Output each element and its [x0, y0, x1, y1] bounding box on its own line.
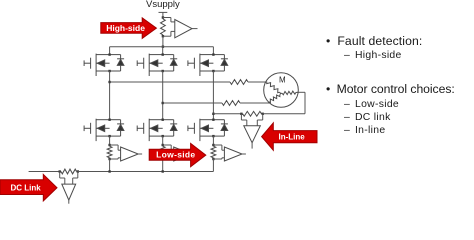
wire U5 output [251, 143, 253, 149]
wire U2 sense taps [110, 145, 121, 159]
bullet Motor control choices [326, 82, 330, 96]
op-amp U5 in-line sense [244, 126, 260, 143]
label arrow High-side [101, 18, 157, 39]
wire U2 output [138, 153, 142, 155]
wire top rail [110, 46, 214, 48]
node supply rail junction [162, 46, 164, 48]
svg-text:Low-side: Low-side [156, 149, 195, 159]
bullet Fault detection [326, 34, 330, 48]
wire U4 source lead [212, 136, 214, 145]
resistor R6 low-side shunt B [160, 144, 165, 160]
wire U6 sense taps [60, 172, 78, 185]
transistor Q6 low-side C [188, 119, 228, 142]
wire phase B [163, 102, 222, 104]
node bus junction A [108, 170, 110, 172]
sub bullet High-side [344, 50, 350, 61]
resistor R8 dc-link shunt [59, 169, 80, 174]
resistor R4 in-line shunt [240, 111, 264, 116]
wire phase C wrap to motor [263, 92, 305, 114]
wire Q2 drain lead [162, 47, 164, 55]
sub bullet DC link [344, 112, 350, 123]
resistor R5 low-side shunt A [107, 144, 112, 160]
svg-text:In-Line: In-Line [278, 133, 305, 142]
op-amp U6 dc-link sense [62, 184, 76, 200]
wire Q3 drain lead [212, 47, 214, 55]
wire R7 low-side shunt C to bus [212, 159, 214, 172]
op-amp U1 high-side sense [175, 20, 192, 38]
wire R6 low-side shunt B to bus [162, 159, 164, 172]
wire leg C vertical [212, 71, 214, 120]
wire leg B vertical [162, 71, 164, 120]
transistor Q4 low-side A [84, 119, 124, 142]
wire U4 output [242, 153, 246, 155]
node phase C tap [212, 113, 214, 115]
sub bullet In-line [344, 125, 350, 136]
op-amp U3 low-side sense [174, 147, 192, 161]
resistor R3 phase B [222, 101, 240, 106]
wire leg A vertical [109, 71, 111, 120]
op-amp U2 low-side sense [121, 147, 139, 161]
wire U2 source lead [109, 136, 111, 145]
transistor Q5 low-side B [137, 119, 177, 142]
wire Q1 drain lead [109, 47, 111, 55]
op-amp U4 low-side sense [224, 147, 242, 161]
wire R5 low-side shunt A to bus [109, 159, 111, 172]
wire bottom bus right [78, 171, 214, 173]
wire phase A to motor [248, 81, 266, 83]
wire U3 output [191, 153, 195, 155]
wire U3 source lead [162, 136, 164, 145]
wire Vsupply terminal [159, 12, 168, 17]
wire phase C [213, 113, 241, 115]
label arrow In-Line [262, 123, 317, 150]
resistor R2 phase A [230, 80, 248, 85]
transistor Q3 high-side C [188, 53, 228, 76]
node phase A tap [108, 81, 110, 83]
wire U5 sense taps [241, 114, 262, 126]
wire U1 output [192, 28, 198, 30]
node bus junction B [162, 170, 164, 172]
svg-text:High-side: High-side [106, 23, 145, 33]
wire bottom bus left [29, 171, 60, 173]
label arrow Low-side [149, 143, 206, 166]
wire U1 sense taps [163, 18, 175, 37]
transistor Q1 high-side A [84, 53, 124, 76]
sub bullet Low-side [344, 99, 350, 110]
node phase B tap [162, 102, 164, 104]
svg-text:M: M [279, 76, 286, 85]
wire phase A [110, 81, 230, 83]
label Vsupply [146, 0, 180, 10]
resistor R7 low-side shunt C [211, 144, 216, 160]
transistor Q2 high-side B [137, 53, 177, 76]
wire R1 to rail [162, 36, 164, 47]
wire U3 sense taps [163, 145, 174, 159]
svg-text:DC Link: DC Link [10, 183, 41, 192]
label arrow DC Link [0, 174, 57, 201]
motor M1 three-phase [264, 73, 299, 108]
wire U6 output [68, 200, 70, 204]
wire U4 sense taps [213, 145, 224, 159]
resistor R1 high-side shunt [161, 16, 166, 37]
wire phase B to motor [240, 102, 270, 104]
